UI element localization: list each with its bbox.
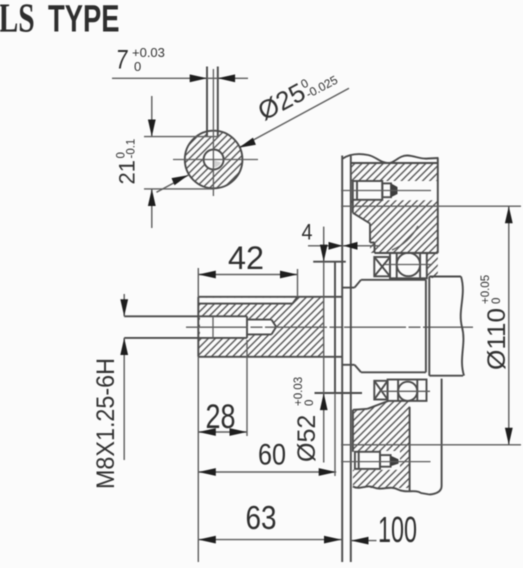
svg-text:42: 42 [228,240,264,276]
svg-text:Ø52: Ø52 [293,415,321,462]
svg-text:M8X1.25-6H: M8X1.25-6H [92,358,120,489]
svg-text:0: 0 [491,298,503,304]
svg-text:60: 60 [258,439,286,472]
svg-text:28: 28 [206,398,236,436]
svg-text:100: 100 [378,509,417,550]
svg-text:0: 0 [134,59,141,74]
svg-text:Ø110: Ø110 [483,308,511,370]
svg-text:0: 0 [304,400,316,406]
svg-text:21: 21 [115,160,140,184]
svg-text:-0.1: -0.1 [126,139,138,159]
svg-text:+0.03: +0.03 [132,45,165,60]
svg-text:63: 63 [246,499,277,536]
svg-text:LS TYPE: LS TYPE [0,0,120,41]
svg-text:4: 4 [302,220,313,245]
